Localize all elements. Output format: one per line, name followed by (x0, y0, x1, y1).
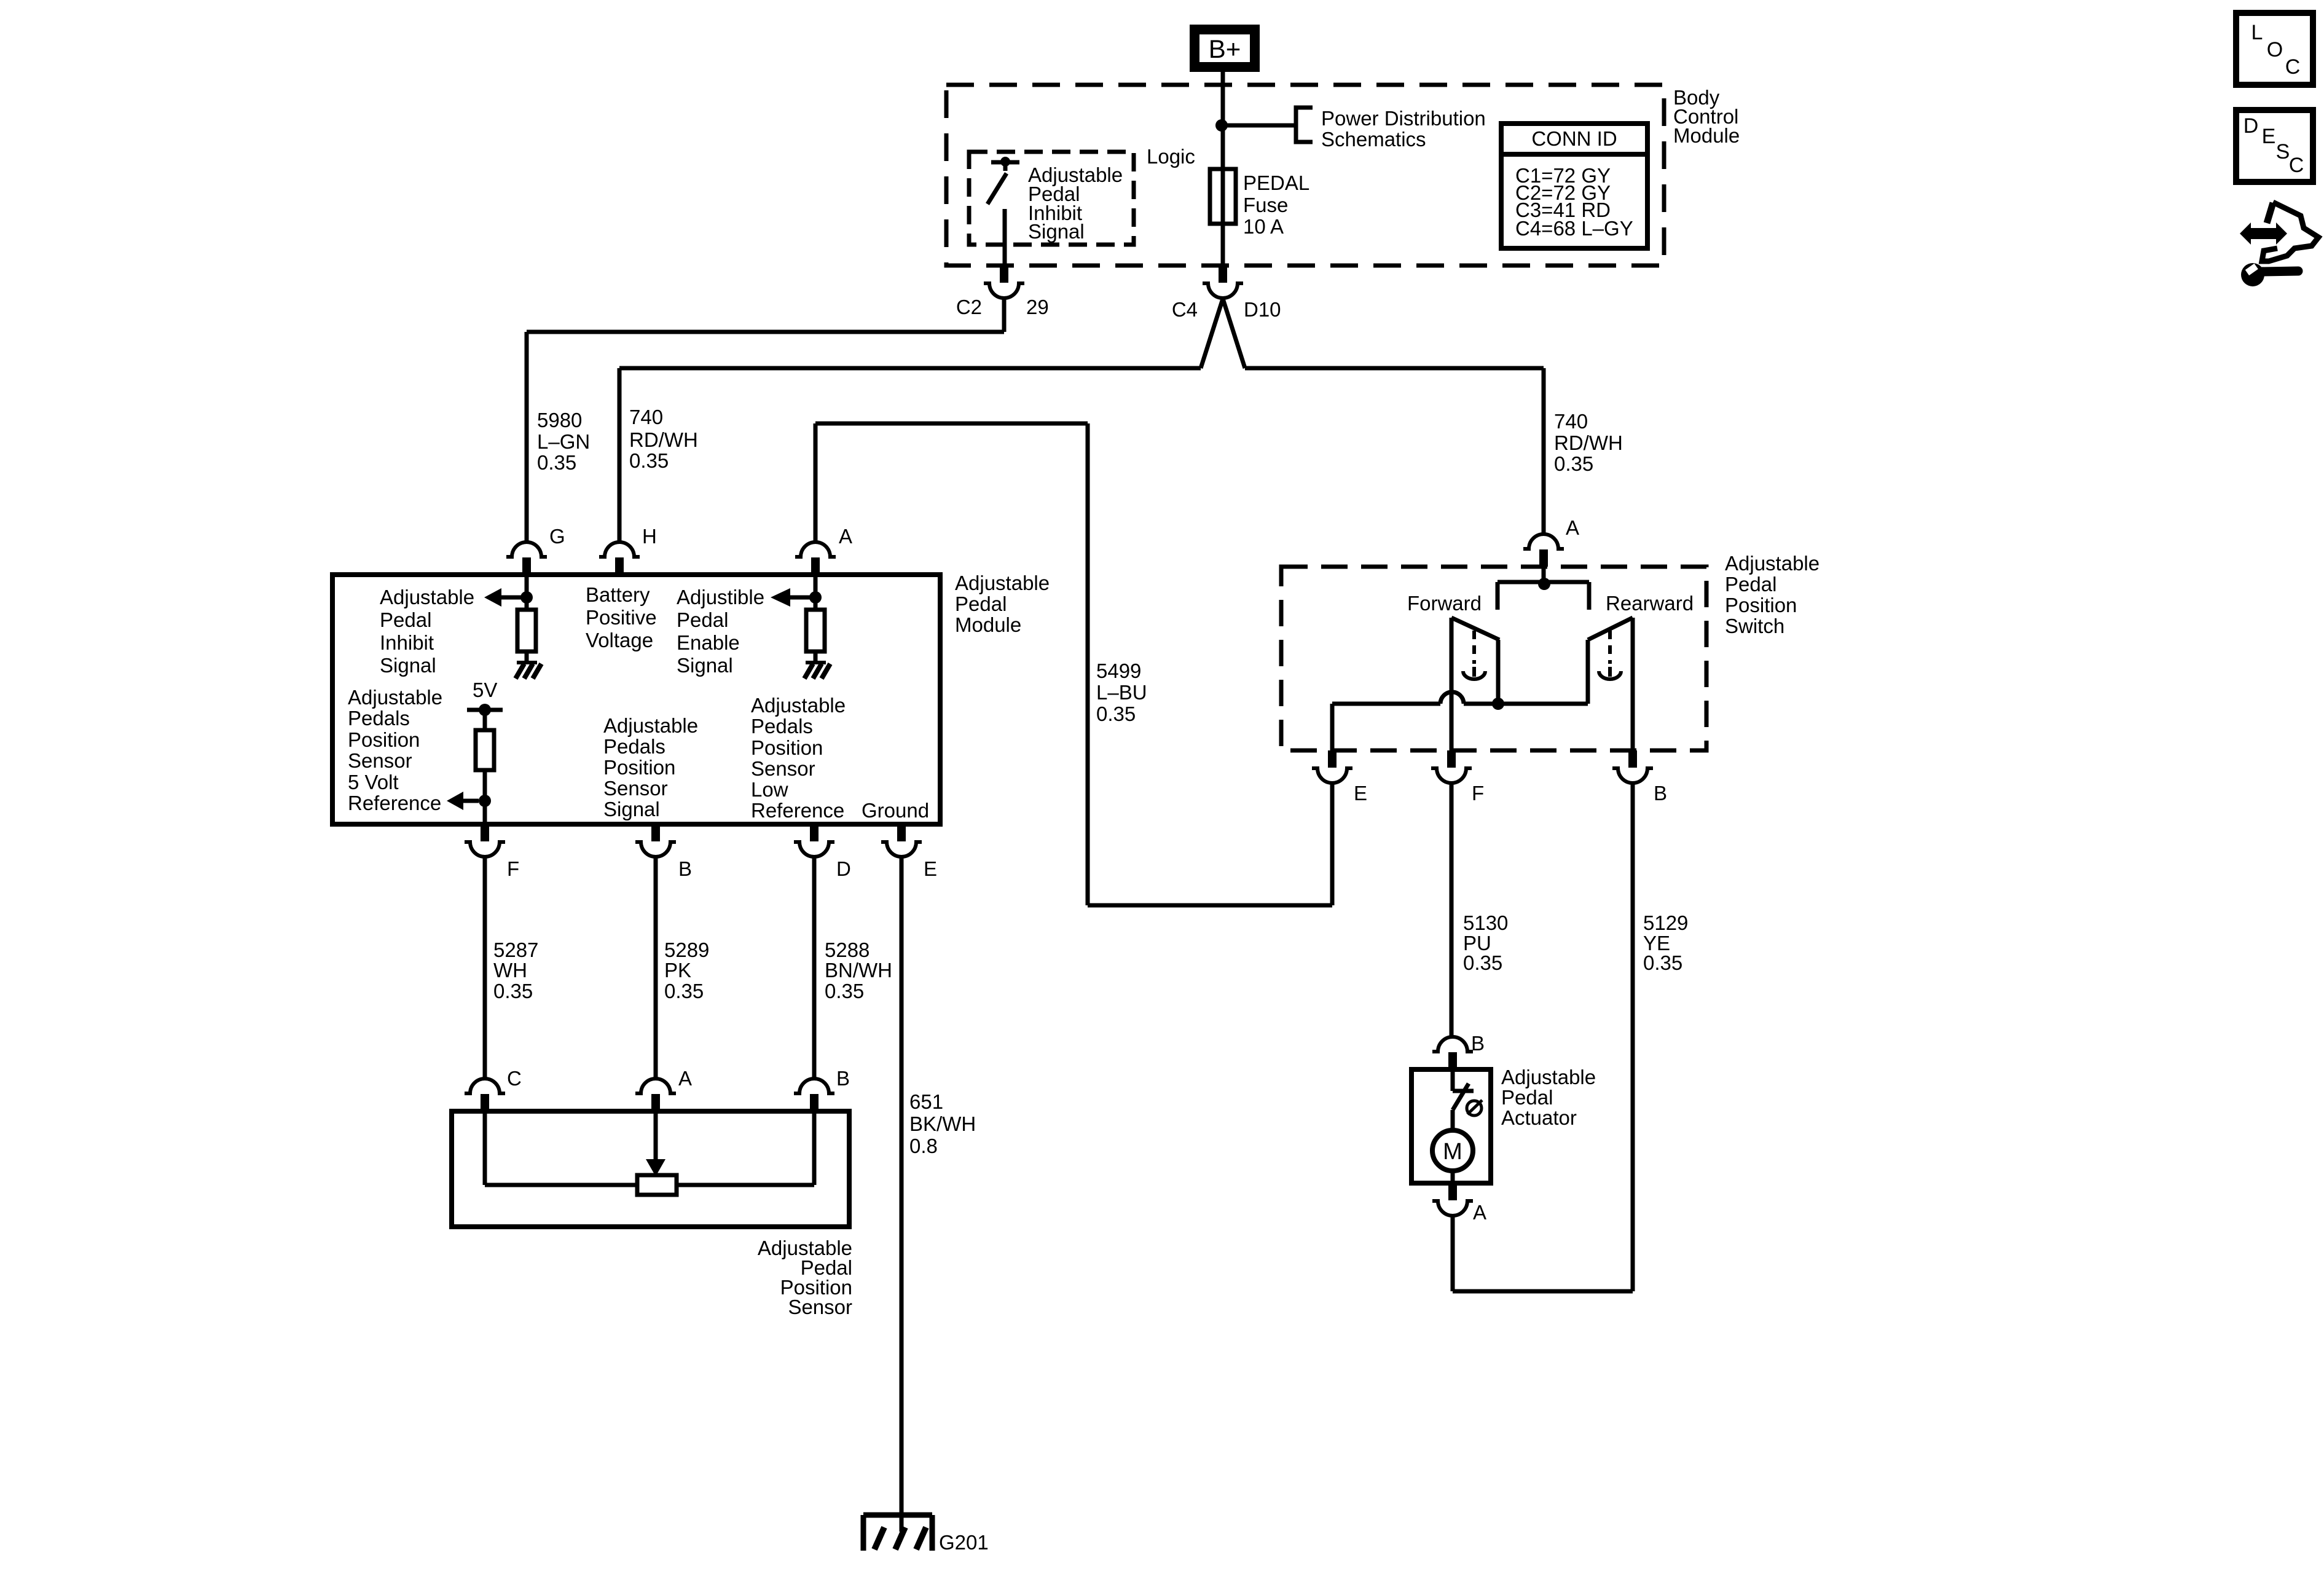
svg-text:RD/WH: RD/WH (1554, 431, 1623, 454)
svg-text:0.35: 0.35 (493, 980, 533, 1002)
svg-text:Signal: Signal (1028, 220, 1085, 243)
svg-text:Adjustable: Adjustable (380, 586, 474, 608)
svg-text:E: E (2262, 125, 2276, 148)
svg-text:5 Volt: 5 Volt (348, 771, 399, 793)
svg-text:M: M (1443, 1139, 1462, 1165)
svg-text:0.35: 0.35 (1554, 452, 1593, 475)
svg-text:Module: Module (955, 613, 1021, 636)
svg-text:5287: 5287 (493, 939, 538, 961)
svg-text:Signal: Signal (603, 798, 660, 821)
svg-text:PK: PK (664, 959, 691, 982)
svg-text:BN/WH: BN/WH (825, 959, 892, 982)
svg-text:Pedal: Pedal (677, 608, 728, 631)
svg-text:Enable: Enable (677, 631, 740, 654)
svg-text:L: L (2251, 21, 2263, 44)
svg-text:A: A (839, 525, 852, 548)
svg-text:C2: C2 (956, 296, 982, 318)
svg-text:CONN ID: CONN ID (1531, 127, 1617, 150)
svg-text:A: A (1566, 516, 1579, 539)
svg-text:0.8: 0.8 (909, 1135, 938, 1157)
svg-text:L–GN: L–GN (537, 430, 590, 453)
svg-text:Pedals: Pedals (751, 715, 813, 738)
svg-text:Voltage: Voltage (586, 629, 653, 651)
svg-text:Pedal: Pedal (1725, 573, 1776, 596)
svg-text:10 A: 10 A (1243, 215, 1284, 238)
svg-text:0.35: 0.35 (825, 980, 864, 1002)
svg-text:Inhibit: Inhibit (380, 631, 434, 654)
svg-text:C: C (2289, 154, 2304, 177)
svg-text:Low: Low (751, 778, 788, 801)
svg-text:B: B (1654, 782, 1667, 805)
svg-text:Actuator: Actuator (1501, 1106, 1577, 1129)
svg-text:RD/WH: RD/WH (629, 428, 698, 451)
svg-text:5130: 5130 (1463, 911, 1508, 934)
svg-text:H: H (642, 525, 657, 548)
svg-text:B+: B+ (1209, 34, 1241, 63)
svg-text:C4: C4 (1172, 298, 1198, 321)
svg-text:0.35: 0.35 (1463, 951, 1502, 974)
svg-text:Adjustable: Adjustable (1501, 1066, 1596, 1088)
svg-text:BK/WH: BK/WH (909, 1112, 976, 1135)
svg-text:Pedals: Pedals (348, 707, 410, 730)
svg-text:Position: Position (348, 728, 420, 751)
svg-text:F: F (507, 857, 519, 880)
svg-text:Logic: Logic (1147, 145, 1195, 168)
svg-text:C: C (2285, 55, 2301, 79)
svg-text:F: F (1472, 782, 1484, 805)
svg-text:D: D (836, 857, 851, 880)
svg-text:Adjustable: Adjustable (348, 686, 442, 709)
svg-text:Power Distribution: Power Distribution (1321, 107, 1486, 130)
svg-text:Position: Position (1725, 594, 1797, 616)
svg-text:B: B (836, 1067, 850, 1090)
svg-text:Forward: Forward (1407, 592, 1482, 615)
svg-text:S: S (2276, 140, 2290, 163)
svg-text:5288: 5288 (825, 939, 870, 961)
svg-text:A: A (678, 1067, 692, 1090)
svg-text:Sensor: Sensor (788, 1296, 852, 1318)
svg-text:L–BU: L–BU (1096, 681, 1147, 704)
svg-text:G: G (549, 525, 565, 548)
svg-text:5129: 5129 (1643, 911, 1688, 934)
svg-text:Adjustible: Adjustible (677, 586, 764, 608)
svg-text:Position: Position (603, 756, 675, 779)
svg-text:Sensor: Sensor (348, 749, 412, 772)
svg-text:0.35: 0.35 (664, 980, 704, 1002)
svg-text:Reference: Reference (751, 799, 844, 822)
svg-text:0.35: 0.35 (629, 449, 669, 472)
svg-text:C: C (507, 1067, 522, 1090)
svg-text:Signal: Signal (380, 654, 436, 677)
svg-text:0.35: 0.35 (537, 451, 576, 474)
svg-text:Pedals: Pedals (603, 735, 665, 758)
svg-text:Pedal: Pedal (955, 592, 1007, 615)
svg-text:Adjustable: Adjustable (603, 714, 698, 737)
svg-text:Switch: Switch (1725, 615, 1784, 637)
svg-text:5980: 5980 (537, 409, 582, 431)
svg-text:D: D (2244, 114, 2259, 138)
svg-text:Sensor: Sensor (603, 777, 668, 800)
svg-text:29: 29 (1026, 296, 1049, 318)
svg-text:Reference: Reference (348, 792, 441, 814)
svg-text:B: B (678, 857, 692, 880)
svg-text:Pedal: Pedal (380, 608, 431, 631)
svg-text:5289: 5289 (664, 939, 709, 961)
svg-text:5499: 5499 (1096, 659, 1141, 682)
svg-text:C4=68 L–GY: C4=68 L–GY (1515, 217, 1633, 240)
svg-text:E: E (1354, 782, 1367, 805)
svg-text:0.35: 0.35 (1096, 702, 1136, 725)
svg-text:G201: G201 (939, 1531, 989, 1554)
svg-text:Positive: Positive (586, 606, 657, 629)
svg-text:Adjustable: Adjustable (1725, 552, 1820, 575)
svg-text:Ground: Ground (862, 799, 929, 822)
svg-text:Module: Module (1673, 124, 1740, 147)
svg-text:D10: D10 (1244, 298, 1281, 321)
svg-text:Fuse: Fuse (1243, 194, 1288, 216)
svg-text:740: 740 (1554, 410, 1588, 433)
svg-text:651: 651 (909, 1090, 943, 1113)
svg-text:B: B (1471, 1032, 1485, 1055)
svg-text:WH: WH (493, 959, 527, 982)
svg-text:0.35: 0.35 (1643, 951, 1682, 974)
svg-text:Battery: Battery (586, 583, 650, 606)
svg-text:Schematics: Schematics (1321, 128, 1426, 151)
svg-text:PEDAL: PEDAL (1243, 171, 1309, 194)
svg-text:Rearward: Rearward (1606, 592, 1694, 615)
svg-text:Signal: Signal (677, 654, 733, 677)
svg-text:Sensor: Sensor (751, 757, 815, 780)
svg-text:Pedal: Pedal (1501, 1086, 1553, 1109)
svg-text:5V: 5V (473, 679, 497, 701)
svg-text:Adjustable: Adjustable (751, 694, 846, 717)
svg-text:E: E (924, 857, 937, 880)
svg-text:A: A (1473, 1201, 1486, 1224)
svg-text:Position: Position (751, 736, 823, 759)
svg-text:Adjustable: Adjustable (955, 572, 1050, 594)
svg-text:O: O (2267, 38, 2283, 61)
svg-text:740: 740 (629, 406, 663, 428)
